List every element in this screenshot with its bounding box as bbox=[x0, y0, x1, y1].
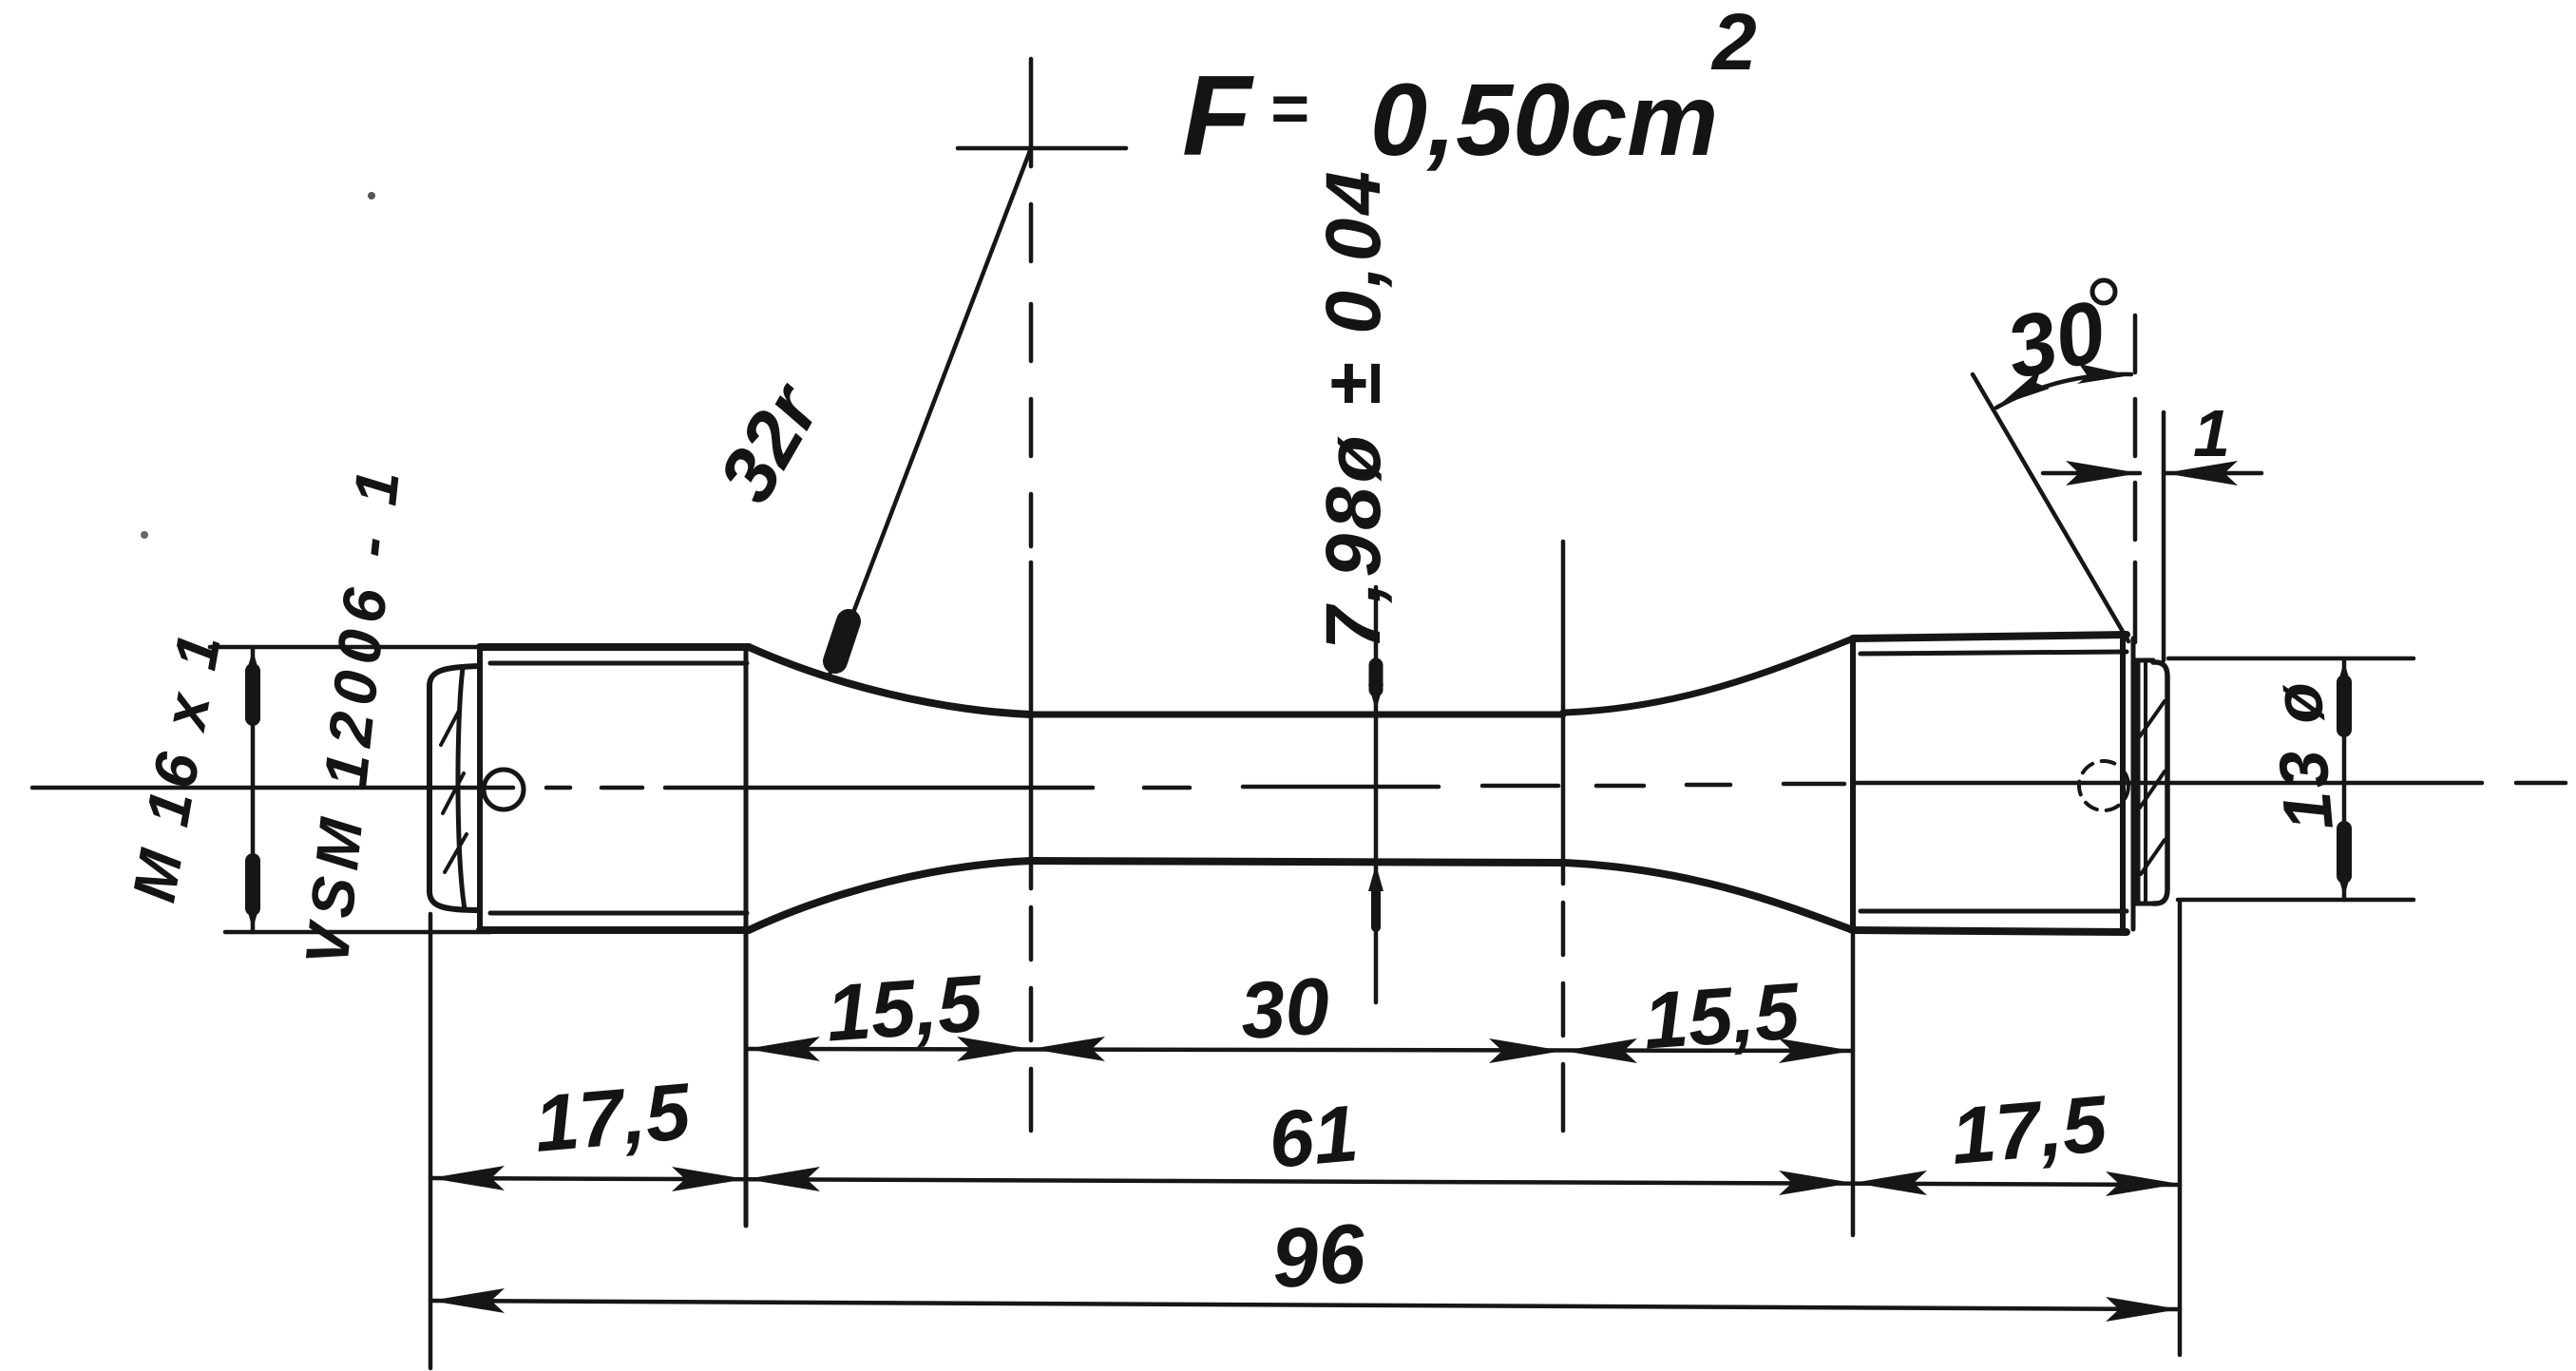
7.98 dimension line bbox=[1374, 587, 1379, 1002]
svg-text:0,50cm: 0,50cm bbox=[1370, 62, 1718, 177]
svg-text:17,5: 17,5 bbox=[531, 1066, 695, 1169]
svg-text:32r: 32r bbox=[703, 369, 838, 517]
svg-text:2: 2 bbox=[1710, 0, 1757, 86]
centerline bbox=[32, 783, 2566, 788]
svg-text:30: 30 bbox=[1237, 961, 1332, 1056]
arrows row2 bbox=[430, 1166, 2180, 1196]
degree circle bbox=[2092, 280, 2115, 303]
svg-text:F: F bbox=[1182, 52, 1254, 180]
M16 dimension line bbox=[251, 647, 256, 932]
7.98 arrow up bbox=[1368, 865, 1383, 891]
chamfer guide vertical left bbox=[2133, 315, 2138, 642]
specimen left thread end cap bbox=[429, 666, 480, 910]
left shoulder fillet top bbox=[749, 647, 1031, 714]
gauge section top edge bbox=[1031, 712, 1563, 718]
dimension row 96 bbox=[430, 1301, 2180, 1309]
svg-text:17,5: 17,5 bbox=[1948, 1078, 2111, 1181]
svg-text:15,5: 15,5 bbox=[824, 958, 986, 1057]
30deg angle arc bbox=[1996, 374, 2131, 408]
13dia arrow down bbox=[2337, 870, 2352, 897]
32r leader arrowhead bbox=[835, 621, 849, 661]
7.98 arrow down bbox=[1368, 684, 1383, 711]
right shoulder fillet top bbox=[1563, 638, 1853, 713]
dimension row 15.5 / 30 / 15.5 bbox=[746, 1049, 1853, 1051]
chamfer 30deg slant line bbox=[1973, 374, 2128, 641]
svg-text:M 16 x 1: M 16 x 1 bbox=[119, 624, 234, 906]
dim 1 arrow right bbox=[2066, 461, 2140, 486]
svg-text:=: = bbox=[1269, 71, 1308, 145]
extension line right shoulder bbox=[1851, 930, 1856, 1235]
specimen right end cap bbox=[2133, 660, 2167, 904]
arc arrow right bbox=[2077, 364, 2131, 384]
extension line right end bbox=[2178, 903, 2183, 1355]
svg-text:VSM 12006 - 1: VSM 12006 - 1 bbox=[292, 460, 412, 969]
gauge mark line right bbox=[1561, 542, 1566, 1131]
svg-text:15,5: 15,5 bbox=[1641, 965, 1803, 1065]
specimen left head outline bbox=[480, 647, 749, 930]
13dia arrow up bbox=[2337, 661, 2352, 688]
13dia dimension line bbox=[2342, 658, 2347, 900]
right thread runout circle bbox=[2079, 761, 2128, 810]
svg-text:61: 61 bbox=[1266, 1088, 1362, 1185]
gauge section bottom edge bbox=[1031, 861, 1563, 863]
dim 1 arrow left bbox=[2164, 461, 2238, 486]
svg-text:96: 96 bbox=[1269, 1206, 1369, 1306]
scan speck bbox=[368, 192, 375, 200]
M16 extension lines bbox=[210, 645, 490, 650]
32r leader line bbox=[830, 148, 1031, 675]
scan speck bbox=[141, 531, 148, 539]
arrows row1 bbox=[746, 1037, 1853, 1063]
arrows row3 bbox=[430, 1288, 2180, 1322]
M16 arrow down bbox=[245, 903, 260, 929]
gauge mark line left with top cross bbox=[958, 59, 1126, 1131]
right shoulder fillet bottom bbox=[1563, 863, 1853, 930]
dimension row 17.5 / 61 / 17.5 bbox=[430, 1178, 2180, 1185]
left shoulder fillet bottom bbox=[749, 861, 1031, 930]
chamfer guide vertical right bbox=[2162, 412, 2166, 660]
svg-text:13 ø: 13 ø bbox=[2259, 676, 2348, 833]
13dia extension lines bbox=[2168, 657, 2414, 661]
dim 1 line bbox=[2043, 471, 2261, 476]
specimen right head outline bbox=[1853, 635, 2133, 932]
M16 arrow up bbox=[245, 650, 260, 676]
extension line left shoulder bbox=[744, 647, 749, 1226]
arc arrow left bbox=[1998, 369, 2050, 406]
left thread runout circle bbox=[484, 770, 524, 809]
svg-text:1: 1 bbox=[2193, 396, 2230, 470]
svg-text:7,98ø ± 0,04: 7,98ø ± 0,04 bbox=[1310, 167, 1397, 650]
extension line left end bbox=[429, 914, 433, 1368]
